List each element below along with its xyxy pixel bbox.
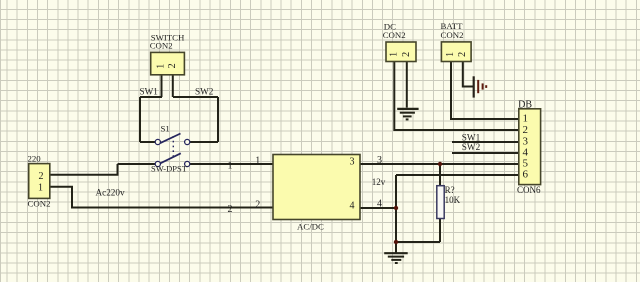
svg-text:SW2: SW2: [195, 86, 214, 96]
svg-text:2: 2: [523, 124, 529, 136]
svg-text:CON2: CON2: [28, 198, 51, 208]
svg-text:2: 2: [167, 63, 178, 68]
svg-text:SW-DPST: SW-DPST: [151, 163, 188, 173]
svg-text:1: 1: [228, 160, 233, 171]
svg-text:CON2: CON2: [150, 41, 173, 51]
svg-text:SW1: SW1: [140, 86, 159, 96]
svg-text:S1: S1: [161, 124, 170, 134]
svg-text:3: 3: [377, 155, 382, 166]
svg-text:2: 2: [401, 52, 412, 57]
svg-text:4: 4: [377, 199, 382, 210]
svg-text:10K: 10K: [445, 195, 461, 205]
svg-text:R?: R?: [445, 185, 455, 195]
svg-text:CON6: CON6: [517, 185, 541, 195]
svg-text:Ac220v: Ac220v: [96, 187, 125, 197]
svg-text:4: 4: [350, 201, 355, 212]
svg-text:12v: 12v: [372, 177, 386, 187]
svg-text:1: 1: [389, 52, 400, 57]
svg-text:1: 1: [523, 113, 529, 125]
svg-text:DB: DB: [518, 100, 532, 111]
svg-text:3: 3: [350, 157, 355, 168]
svg-text:CON2: CON2: [383, 30, 406, 40]
svg-text:AC/DC: AC/DC: [297, 221, 324, 231]
svg-text:2: 2: [228, 204, 233, 215]
svg-text:1: 1: [445, 52, 456, 57]
svg-text:1: 1: [38, 183, 43, 194]
svg-text:6: 6: [523, 169, 529, 181]
svg-text:CON2: CON2: [441, 30, 464, 40]
svg-text:2: 2: [255, 199, 260, 210]
svg-text:1: 1: [155, 64, 166, 69]
svg-text:2: 2: [39, 171, 44, 182]
svg-text:1: 1: [255, 156, 260, 167]
svg-text:220: 220: [28, 154, 42, 164]
svg-text:2: 2: [457, 52, 468, 57]
svg-text:SW2: SW2: [462, 142, 481, 152]
